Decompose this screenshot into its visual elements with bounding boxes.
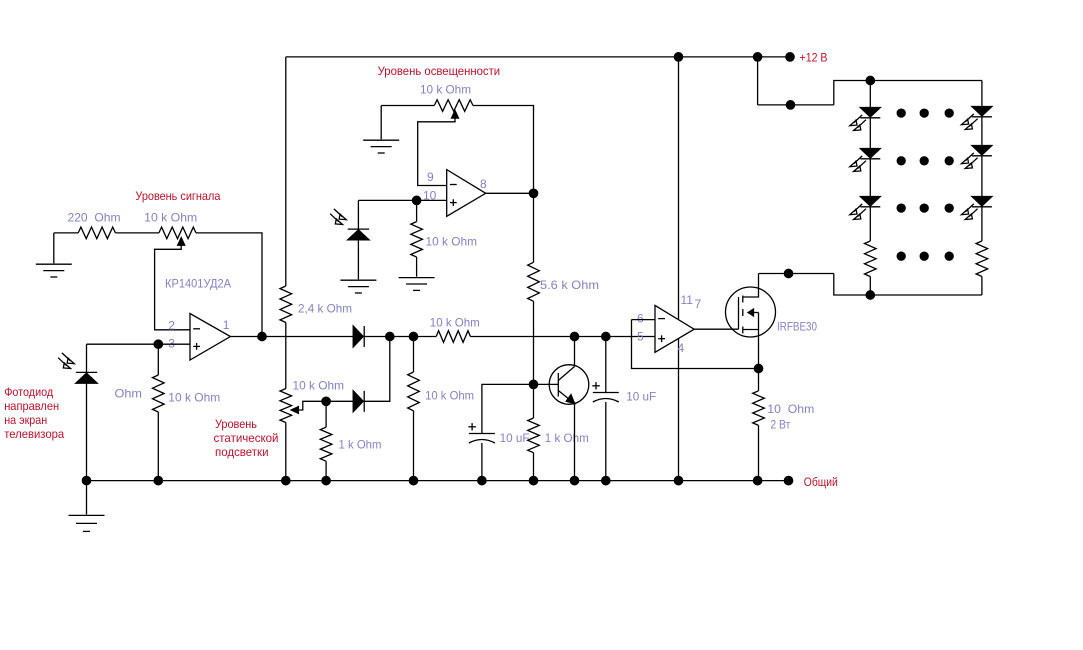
resistor R7 10 k Ohm horizontal xyxy=(436,331,470,343)
wire pot right end feedback from output xyxy=(196,233,262,337)
svg-text:4: 4 xyxy=(678,341,685,355)
ground rail junction dots xyxy=(82,476,762,484)
svg-text:1 k Ohm: 1 k Ohm xyxy=(545,431,589,445)
op-amp U1 КР1401УД2А xyxy=(190,314,230,361)
MOSFET source stub xyxy=(743,330,759,369)
wire D1 cathode to node A xyxy=(364,336,413,338)
potentiometer R4 10 k Ohm static level xyxy=(280,389,292,423)
svg-text:2 Вт: 2 Вт xyxy=(770,418,790,432)
potentiometer wiper arrow xyxy=(178,238,185,246)
wire wiper to op-amp pin 2 xyxy=(155,245,190,330)
MOSFET internal source link xyxy=(758,313,760,330)
wire +12V rail down to R3 xyxy=(285,57,287,286)
junction LED matrix top rail left string xyxy=(866,76,874,84)
svg-text:3: 3 xyxy=(168,337,175,351)
ground at 220 Ohm input xyxy=(53,233,55,263)
svg-text:подсветки: подсветки xyxy=(215,445,269,459)
resistor R6 10 k Ohm vertical xyxy=(413,337,415,373)
junction drain wire dot xyxy=(784,269,792,277)
LED VD9 xyxy=(972,197,992,207)
node +12V terminal dot xyxy=(786,53,794,61)
svg-text:10 k Ohm: 10 k Ohm xyxy=(168,391,220,405)
diode D1 xyxy=(353,326,363,347)
resistor R14 right string xyxy=(976,241,988,277)
svg-text:11: 11 xyxy=(681,293,694,307)
wire op-amp supply line pin11 to pin4 xyxy=(678,57,680,481)
photodiode VD1 xyxy=(76,373,97,383)
svg-text:Общий: Общий xyxy=(804,475,838,489)
resistor R13 left string xyxy=(865,241,877,277)
svg-text:статической: статической xyxy=(214,431,279,445)
wire step down to matrix bottom rail xyxy=(834,274,982,296)
node +12V top rail wire xyxy=(286,56,790,58)
wire node to capacitor C2 xyxy=(605,337,607,393)
junction pin3 with 10k divider xyxy=(154,340,162,348)
wire ground to pot R8 xyxy=(381,105,434,107)
wire pot R4 to ground rail xyxy=(285,423,287,481)
MOSFET channel segments xyxy=(742,296,744,303)
junction on +12V rail at supply branch xyxy=(753,53,761,61)
junction base node xyxy=(529,380,537,388)
wire base node to transistor Q1 base xyxy=(534,383,559,385)
resistor R10 5.6 k Ohm xyxy=(533,193,535,262)
wire op-amp output to feedback node xyxy=(230,336,262,338)
svg-text:2,4 k Ohm: 2,4 k Ohm xyxy=(298,302,352,316)
wire +12V feed horizontal xyxy=(758,104,834,106)
junction U2 output node xyxy=(529,189,537,197)
wire drain to LED matrix xyxy=(759,273,834,275)
svg-text:5: 5 xyxy=(637,330,644,344)
potentiometer R8 10 k Ohm light level xyxy=(434,100,473,112)
wire op-amp U2 output xyxy=(486,192,534,194)
LED VD7 xyxy=(972,107,992,117)
wire R10 down to base node (crosses main line) xyxy=(533,301,535,384)
svg-text:220 Ohm: 220 Ohm xyxy=(68,211,121,225)
wire R4 wiper to diode D2 xyxy=(298,401,353,410)
wire ground to R 220 xyxy=(54,232,78,234)
svg-text:IRFBE30: IRFBE30 xyxy=(777,320,817,334)
svg-text:телевизора: телевизора xyxy=(4,427,64,441)
op-amp U2 xyxy=(447,170,486,217)
ground rail terminal dot xyxy=(784,476,792,484)
wire D2 cathode up to node A xyxy=(364,337,390,402)
svg-text:10 k Ohm: 10 k Ohm xyxy=(293,379,345,393)
wire 220 Ohm to potentiometer xyxy=(115,232,158,234)
wire R13 to bottom rail xyxy=(869,277,871,296)
capacitor C1 10 uF xyxy=(469,433,495,435)
junction node B top of R6 xyxy=(409,332,417,340)
wire pin 3 line photodiode to op-amp xyxy=(87,343,191,345)
junction node A after D1 xyxy=(386,332,394,340)
wire output node to diode D1 xyxy=(262,336,353,338)
wire feedback pin6 to source sense xyxy=(632,320,759,369)
wire R8 wiper to op-amp pin 9 xyxy=(418,117,455,185)
wire photodiode VD3 top xyxy=(357,200,359,229)
wire node B to R7 xyxy=(414,336,437,338)
capacitor C2 10 uF xyxy=(593,392,619,394)
wire +12V feed step down xyxy=(757,57,759,105)
wire pin 6 stub xyxy=(632,319,656,321)
ellipsis dots more LED strings xyxy=(897,109,953,260)
MOSFET body arrow xyxy=(748,312,758,314)
resistor R3 2,4 k Ohm xyxy=(280,286,292,323)
LED VD8 xyxy=(972,146,992,156)
junction wiper line with R5 xyxy=(322,397,330,405)
MOSFET Q2 IRFBE30 circle xyxy=(726,287,776,337)
light arrows into VD3 xyxy=(330,209,346,225)
junction pin10 with R9 xyxy=(412,196,420,204)
wire VD3 to ground xyxy=(357,240,359,279)
MOSFET gate bar xyxy=(738,297,740,329)
resistor R12 10 Ohm 2W xyxy=(758,369,760,391)
wire photodiode VD1 top xyxy=(86,344,88,372)
ground at VD3 xyxy=(340,279,376,281)
wire pin3 node to resistor R2 xyxy=(157,344,159,375)
potentiometer 10 k Ohm signal level xyxy=(159,227,196,239)
svg-text:7: 7 xyxy=(695,297,702,311)
svg-text:10 k Ohm: 10 k Ohm xyxy=(144,211,197,225)
resistor R9 10 k Ohm xyxy=(416,200,418,221)
wire pin 10 line xyxy=(358,199,446,201)
op-amp U3 xyxy=(655,305,694,352)
wire ground rail xyxy=(87,480,789,482)
svg-text:10 uF: 10 uF xyxy=(626,390,656,404)
svg-text:Уровень сигнала: Уровень сигнала xyxy=(135,189,220,203)
svg-text:5.6 k Ohm: 5.6 k Ohm xyxy=(540,278,599,292)
ground at R9 xyxy=(399,277,435,279)
LED VD5 xyxy=(860,149,880,159)
svg-text:10 k Ohm: 10 k Ohm xyxy=(430,316,480,330)
wire U3 output to MOSFET gate xyxy=(694,328,738,330)
svg-text:10 k Ohm: 10 k Ohm xyxy=(420,83,471,97)
wire R2 to ground rail xyxy=(157,412,159,481)
svg-text:Уровень освещенности: Уровень освещенности xyxy=(378,64,501,78)
wire C1 to ground rail xyxy=(481,443,483,481)
svg-text:+12 В: +12 В xyxy=(800,51,828,65)
wire LED string right vertical xyxy=(981,81,983,242)
svg-text:10 k Ohm: 10 k Ohm xyxy=(426,235,478,249)
junction matrix bottom rail left string xyxy=(866,291,874,299)
photodiode VD3 xyxy=(348,230,369,240)
junction supply line at top rail xyxy=(674,53,682,61)
wire R7 to op-amp U3 pin5 xyxy=(470,336,655,338)
wire Q1 collector to main line xyxy=(574,337,576,367)
svg-text:Ohm: Ohm xyxy=(115,387,143,401)
svg-text:10 uF: 10 uF xyxy=(500,431,530,445)
pot R8 wiper arrow xyxy=(452,111,459,119)
diode D2 xyxy=(353,391,363,412)
resistor R2 10 k Ohm xyxy=(153,375,165,412)
resistor 220 Ohm xyxy=(78,227,115,239)
ground symbol at rail xyxy=(86,481,88,515)
resistor R11 1 k Ohm xyxy=(533,384,535,418)
transistor Q1 xyxy=(549,365,589,405)
wire R14 to bottom rail xyxy=(981,277,983,296)
svg-text:1: 1 xyxy=(223,318,230,332)
junction source sense node xyxy=(754,364,762,372)
MOSFET drain stub xyxy=(743,274,759,298)
junction cap C2 node xyxy=(602,332,610,340)
svg-text:КР1401УД2А: КР1401УД2А xyxy=(165,277,231,291)
svg-text:9: 9 xyxy=(427,170,434,184)
resistor R5 1 k Ohm xyxy=(325,401,327,427)
svg-text:10 k Ohm: 10 k Ohm xyxy=(425,389,474,403)
LED VD6 xyxy=(860,197,880,207)
wire R3 to potentiometer static xyxy=(285,323,287,389)
wire base node to capacitor C1 xyxy=(482,384,534,433)
svg-text:10 Ohm: 10 Ohm xyxy=(767,402,814,416)
junction collector node xyxy=(570,332,578,340)
junction dot on feed wire xyxy=(786,101,794,109)
pot R4 wiper arrow xyxy=(291,407,298,414)
wire pot R8 right end to output node xyxy=(473,106,534,194)
svg-text:1 k Ohm: 1 k Ohm xyxy=(339,438,382,452)
wire Q1 emitter to ground rail xyxy=(574,404,576,481)
light arrows into VD1 xyxy=(58,353,74,369)
svg-text:8: 8 xyxy=(480,177,487,191)
svg-text:Фотодиод: Фотодиод xyxy=(4,385,53,399)
svg-text:6: 6 xyxy=(637,312,644,326)
junction output node xyxy=(258,332,266,340)
wire step up to LED matrix top rail xyxy=(834,81,982,105)
wire LED string left vertical xyxy=(869,81,871,242)
svg-text:2: 2 xyxy=(168,319,175,333)
ground at pot R8 xyxy=(380,106,382,140)
svg-text:на экран: на экран xyxy=(4,413,47,427)
svg-text:Уровень: Уровень xyxy=(215,417,257,431)
wire C2 to ground rail xyxy=(605,402,607,481)
svg-text:направлен: направлен xyxy=(4,399,59,413)
LED VD4 xyxy=(860,108,880,118)
wire photodiode VD1 to ground rail xyxy=(86,383,88,480)
